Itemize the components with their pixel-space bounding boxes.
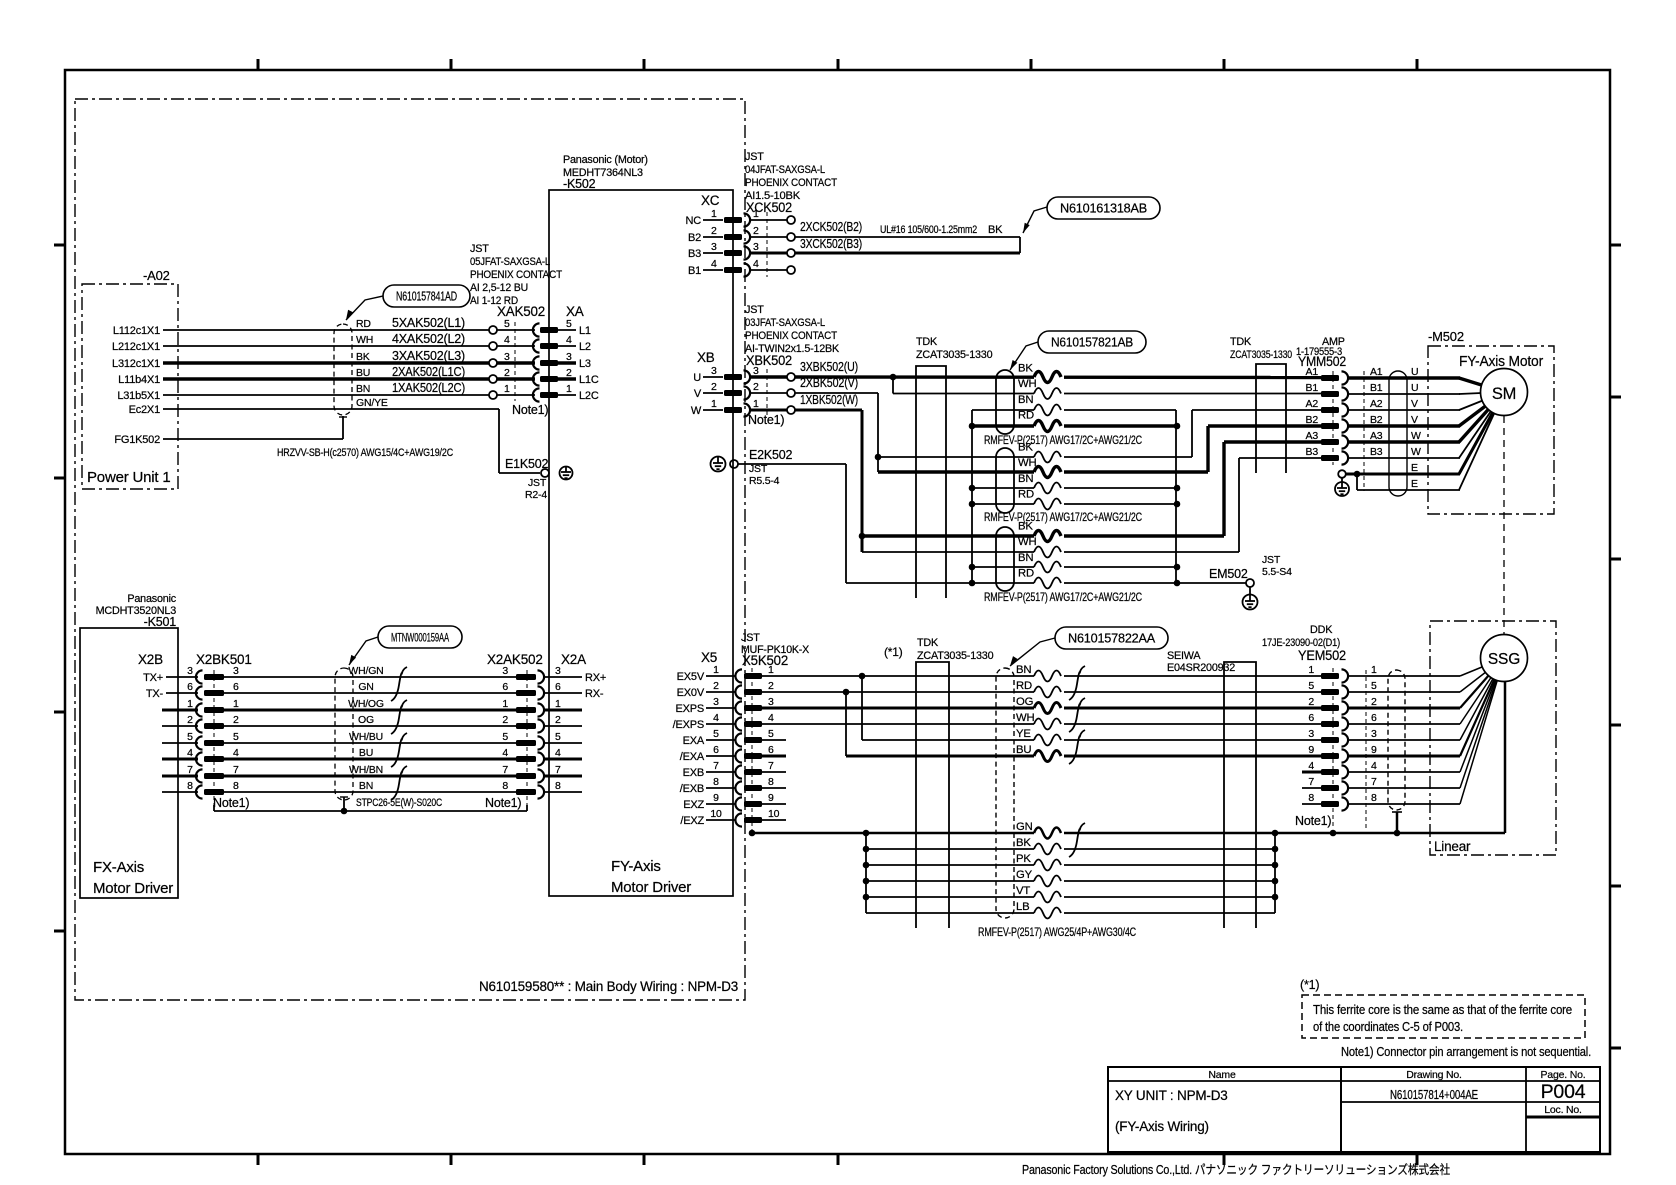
svg-text:PHOENIX CONTACT: PHOENIX CONTACT (745, 330, 838, 342)
svg-text:OG: OG (1016, 696, 1033, 708)
svg-text:3: 3 (711, 241, 717, 253)
svg-text:N610161318AB: N610161318AB (1060, 201, 1147, 215)
svg-text:DDK: DDK (1310, 624, 1333, 636)
svg-text:5: 5 (1308, 680, 1314, 692)
svg-text:EXPS: EXPS (675, 703, 704, 715)
svg-text:04JFAT-SAXGSA-L: 04JFAT-SAXGSA-L (745, 164, 825, 176)
svg-text:EXA: EXA (683, 735, 705, 747)
svg-text:EXZ: EXZ (683, 799, 704, 811)
svg-text:BN: BN (356, 383, 370, 395)
svg-text:JST: JST (745, 304, 764, 316)
svg-text:U: U (1411, 382, 1418, 394)
svg-text:XB: XB (697, 350, 715, 365)
svg-text:FY-Axis: FY-Axis (611, 858, 661, 875)
svg-text:2: 2 (504, 367, 510, 379)
svg-text:1: 1 (504, 383, 510, 395)
svg-text:MTNW000159AA: MTNW000159AA (391, 630, 449, 644)
svg-text:1XBK502(W): 1XBK502(W) (800, 392, 858, 407)
svg-text:8: 8 (1371, 792, 1377, 804)
svg-text:-M502: -M502 (1428, 329, 1464, 344)
svg-text:V: V (1411, 398, 1418, 410)
svg-text:6: 6 (1308, 712, 1314, 724)
svg-text:STPC26-5E(W)-S020C: STPC26-5E(W)-S020C (356, 797, 442, 809)
svg-text:(FY-Axis Wiring): (FY-Axis Wiring) (1115, 1119, 1209, 1134)
svg-text:AI 2,5-12 BU: AI 2,5-12 BU (470, 282, 528, 294)
svg-text:TDK: TDK (1230, 336, 1252, 348)
svg-text:1: 1 (711, 398, 717, 410)
svg-text:B1: B1 (688, 265, 701, 277)
svg-text:3XAK502(L3): 3XAK502(L3) (392, 348, 465, 363)
svg-text:Note1): Note1) (213, 796, 249, 810)
svg-text:1: 1 (1308, 664, 1314, 676)
svg-text:B2: B2 (688, 232, 701, 244)
svg-text:ZCAT3035-1330: ZCAT3035-1330 (1230, 349, 1292, 361)
svg-text:W: W (1411, 430, 1421, 442)
svg-text:L1C: L1C (579, 374, 599, 386)
svg-text:5: 5 (502, 731, 508, 743)
svg-text:4: 4 (504, 334, 510, 346)
svg-text:L112c1X1: L112c1X1 (113, 325, 160, 337)
svg-text:3XBK502(U): 3XBK502(U) (800, 359, 858, 374)
svg-text:X2B: X2B (138, 652, 163, 667)
svg-text:W: W (1411, 446, 1421, 458)
svg-text:A2: A2 (1370, 398, 1383, 410)
svg-text:BK: BK (988, 224, 1003, 236)
svg-text:B1: B1 (1306, 382, 1319, 394)
svg-text:8: 8 (233, 780, 239, 792)
svg-text:JST: JST (1262, 554, 1281, 566)
svg-text:/EXA: /EXA (680, 751, 705, 763)
svg-text:4: 4 (1371, 760, 1377, 772)
svg-text:7: 7 (233, 764, 239, 776)
svg-text:BN: BN (1018, 394, 1033, 406)
svg-text:1: 1 (711, 208, 717, 220)
svg-text:TDK: TDK (916, 336, 938, 348)
svg-text:RMFEV-P(2517) AWG25/4P+AWG30/4: RMFEV-P(2517) AWG25/4P+AWG30/4C (978, 925, 1137, 939)
svg-text:1: 1 (555, 698, 561, 710)
svg-text:XA: XA (566, 304, 584, 319)
svg-text:3XCK502(B3): 3XCK502(B3) (800, 236, 862, 251)
svg-text:L3: L3 (579, 358, 591, 370)
svg-text:(*1): (*1) (884, 645, 903, 659)
svg-text:2: 2 (187, 714, 193, 726)
svg-text:2: 2 (566, 367, 572, 379)
svg-text:of the coordinates C-5 of P003: of the coordinates C-5 of P003. (1313, 1019, 1463, 1034)
svg-text:3: 3 (753, 241, 759, 253)
svg-text:RX-: RX- (585, 688, 604, 700)
svg-text:WH: WH (1016, 712, 1034, 724)
svg-text:Note1): Note1) (748, 413, 784, 427)
svg-text:Note1) Connector pin arrangeme: Note1) Connector pin arrangement is not … (1341, 1044, 1591, 1059)
svg-text:1: 1 (1371, 664, 1377, 676)
svg-text:1XAK502(L2C): 1XAK502(L2C) (392, 380, 465, 395)
svg-text:/EXB: /EXB (680, 783, 704, 795)
svg-text:2: 2 (502, 714, 508, 726)
svg-text:3: 3 (1371, 728, 1377, 740)
svg-text:W: W (691, 405, 702, 417)
svg-text:9: 9 (768, 792, 774, 804)
svg-text:3: 3 (753, 365, 759, 377)
svg-text:P004: P004 (1541, 1081, 1586, 1103)
svg-text:-A02: -A02 (143, 268, 170, 283)
svg-text:8: 8 (187, 780, 193, 792)
svg-text:R5.5-4: R5.5-4 (749, 475, 780, 487)
svg-text:1: 1 (502, 698, 508, 710)
svg-text:E2K502: E2K502 (749, 448, 793, 462)
svg-text:WH/GN: WH/GN (348, 665, 383, 677)
svg-text:9: 9 (1308, 744, 1314, 756)
svg-text:RMFEV-P(2517) AWG17/2C+AWG21/2: RMFEV-P(2517) AWG17/2C+AWG21/2C (984, 590, 1143, 604)
svg-text:ZCAT3035-1330: ZCAT3035-1330 (916, 349, 993, 361)
svg-text:EM502: EM502 (1209, 567, 1248, 581)
svg-text:4: 4 (768, 712, 774, 724)
svg-text:B3: B3 (688, 248, 701, 260)
svg-text:7: 7 (1371, 776, 1377, 788)
svg-text:X5: X5 (701, 650, 717, 665)
svg-text:2XCK502(B2): 2XCK502(B2) (800, 219, 862, 234)
svg-text:6: 6 (233, 681, 239, 693)
svg-text:Linear: Linear (1434, 839, 1471, 854)
svg-text:TX+: TX+ (143, 672, 163, 684)
svg-text:Drawing No.: Drawing No. (1406, 1069, 1462, 1081)
svg-text:4: 4 (566, 334, 572, 346)
svg-text:A1: A1 (1370, 366, 1383, 378)
svg-text:9: 9 (1371, 744, 1377, 756)
svg-text:4: 4 (753, 258, 759, 270)
svg-text:PHOENIX CONTACT: PHOENIX CONTACT (745, 177, 838, 189)
svg-text:5: 5 (713, 728, 719, 740)
svg-text:XC: XC (701, 193, 720, 208)
svg-text:PK: PK (1016, 853, 1031, 865)
svg-text:N610159580** : Main Body Wirin: N610159580** : Main Body Wiring : NPM-D3 (479, 978, 738, 994)
svg-text:5: 5 (566, 318, 572, 330)
svg-text:2: 2 (768, 680, 774, 692)
svg-text:BU: BU (1016, 744, 1031, 756)
svg-text:7: 7 (502, 764, 508, 776)
svg-text:2: 2 (1308, 696, 1314, 708)
svg-text:BN: BN (1016, 664, 1031, 676)
svg-text:YEM502: YEM502 (1298, 648, 1346, 663)
svg-text:B1: B1 (1370, 382, 1383, 394)
svg-text:BK: BK (1018, 363, 1033, 375)
svg-text:6: 6 (1371, 712, 1377, 724)
svg-text:N610157822AA: N610157822AA (1068, 631, 1156, 645)
svg-text:NC: NC (686, 215, 702, 227)
svg-text:6: 6 (187, 681, 193, 693)
svg-text:6: 6 (713, 744, 719, 756)
svg-text:2XAK502(L1C): 2XAK502(L1C) (392, 364, 465, 379)
svg-text:SSG: SSG (1488, 651, 1520, 668)
svg-text:3: 3 (504, 351, 510, 363)
svg-text:5.5-S4: 5.5-S4 (1262, 566, 1292, 578)
svg-text:B2: B2 (1370, 414, 1383, 426)
svg-text:8: 8 (555, 780, 561, 792)
svg-text:03JFAT-SAXGSA-L: 03JFAT-SAXGSA-L (745, 317, 825, 329)
svg-text:5: 5 (504, 318, 510, 330)
svg-text:LB: LB (1016, 901, 1029, 913)
svg-text:X2BK501: X2BK501 (196, 652, 252, 667)
svg-text:N610157841AD: N610157841AD (396, 289, 457, 303)
svg-text:7: 7 (555, 764, 561, 776)
svg-text:A3: A3 (1370, 430, 1383, 442)
svg-text:2: 2 (555, 714, 561, 726)
svg-text:4: 4 (502, 747, 508, 759)
svg-text:JST: JST (528, 477, 547, 489)
svg-text:Note1): Note1) (512, 403, 548, 417)
svg-text:X5K502: X5K502 (742, 653, 788, 668)
svg-text:ZCAT3035-1330: ZCAT3035-1330 (917, 650, 994, 662)
svg-text:RMFEV-P(2517) AWG17/2C+AWG21/2: RMFEV-P(2517) AWG17/2C+AWG21/2C (984, 433, 1143, 447)
svg-text:-K501: -K501 (144, 615, 177, 629)
svg-text:This ferrite core is the same: This ferrite core is the same as that of… (1313, 1002, 1572, 1017)
svg-text:3: 3 (1308, 728, 1314, 740)
svg-text:EXB: EXB (683, 767, 704, 779)
svg-text:Note1): Note1) (485, 796, 521, 810)
svg-text:RD: RD (1018, 568, 1034, 580)
svg-text:3: 3 (233, 665, 239, 677)
svg-text:JST: JST (470, 243, 489, 255)
svg-text:5XAK502(L1): 5XAK502(L1) (392, 315, 465, 330)
svg-text:B3: B3 (1306, 446, 1319, 458)
svg-text:4: 4 (1308, 760, 1314, 772)
svg-text:-K502: -K502 (563, 177, 596, 191)
svg-text:8: 8 (1308, 792, 1314, 804)
svg-text:4: 4 (711, 258, 717, 270)
svg-text:X2A: X2A (561, 652, 586, 667)
svg-text:EX5V: EX5V (677, 671, 705, 683)
svg-text:7: 7 (713, 760, 719, 772)
svg-text:10: 10 (710, 808, 722, 820)
svg-text:E: E (1411, 462, 1418, 474)
svg-text:BU: BU (359, 747, 373, 759)
svg-text:L31b5X1: L31b5X1 (117, 390, 160, 402)
svg-text:TDK: TDK (917, 637, 939, 649)
svg-text:L11b4X1: L11b4X1 (118, 374, 160, 386)
svg-text:6: 6 (555, 681, 561, 693)
svg-text:2: 2 (753, 225, 759, 237)
svg-text:3: 3 (713, 696, 719, 708)
svg-text:RMFEV-P(2517) AWG17/2C+AWG21/2: RMFEV-P(2517) AWG17/2C+AWG21/2C (984, 510, 1143, 524)
svg-text:UL#16 105/600-1.25mm2: UL#16 105/600-1.25mm2 (880, 224, 977, 236)
svg-text:VT: VT (1016, 885, 1030, 897)
svg-text:EX0V: EX0V (677, 687, 705, 699)
svg-text:5: 5 (187, 731, 193, 743)
svg-text:FX-Axis: FX-Axis (93, 859, 144, 876)
svg-text:2: 2 (711, 225, 717, 237)
svg-text:4: 4 (713, 712, 719, 724)
svg-text:L312c1X1: L312c1X1 (112, 358, 160, 370)
svg-text:3: 3 (566, 351, 572, 363)
svg-text:Name: Name (1208, 1069, 1236, 1081)
svg-text:Panasonic Factory Solutions Co: Panasonic Factory Solutions Co.,Ltd. パナソ… (1022, 1162, 1450, 1177)
svg-text:RX+: RX+ (585, 672, 606, 684)
svg-text:BK: BK (356, 351, 370, 363)
svg-text:Note1): Note1) (1295, 814, 1331, 828)
svg-text:1: 1 (768, 664, 774, 676)
svg-text:Motor Driver: Motor Driver (611, 879, 691, 896)
svg-text:9: 9 (713, 792, 719, 804)
svg-text:3: 3 (502, 665, 508, 677)
svg-text:XY UNIT : NPM-D3: XY UNIT : NPM-D3 (1115, 1088, 1228, 1103)
svg-text:A3: A3 (1306, 430, 1319, 442)
svg-text:N610157821AB: N610157821AB (1051, 335, 1133, 349)
svg-text:BN: BN (1018, 552, 1033, 564)
svg-text:2: 2 (233, 714, 239, 726)
svg-text:YE: YE (1016, 728, 1031, 740)
svg-text:XAK502: XAK502 (497, 304, 545, 319)
svg-text:GN: GN (358, 681, 373, 693)
svg-text:A2: A2 (1306, 398, 1319, 410)
svg-text:8: 8 (502, 780, 508, 792)
svg-text:1: 1 (753, 398, 759, 410)
svg-text:U: U (1411, 366, 1418, 378)
svg-text:4: 4 (187, 747, 193, 759)
svg-text:WH: WH (1018, 536, 1036, 548)
svg-text:L212c1X1: L212c1X1 (112, 341, 160, 353)
svg-text:3: 3 (187, 665, 193, 677)
svg-text:Motor Driver: Motor Driver (93, 880, 173, 897)
svg-text:WH: WH (1018, 378, 1036, 390)
svg-text:RD: RD (1018, 410, 1034, 422)
svg-text:RD: RD (1016, 680, 1032, 692)
svg-text:A1: A1 (1306, 366, 1319, 378)
svg-text:3: 3 (768, 696, 774, 708)
svg-text:7: 7 (1308, 776, 1314, 788)
svg-text:Power Unit 1: Power Unit 1 (87, 469, 170, 486)
svg-text:E04SR200932: E04SR200932 (1167, 662, 1235, 674)
svg-text:/EXPS: /EXPS (673, 719, 704, 731)
svg-text:5: 5 (233, 731, 239, 743)
svg-text:WH: WH (1018, 457, 1036, 469)
svg-text:1: 1 (566, 383, 572, 395)
svg-text:4: 4 (555, 747, 561, 759)
svg-text:WH/BN: WH/BN (349, 764, 383, 776)
svg-text:BK: BK (1016, 837, 1031, 849)
svg-text:4XAK502(L2): 4XAK502(L2) (392, 331, 465, 346)
svg-text:TX-: TX- (146, 688, 164, 700)
svg-text:X2AK502: X2AK502 (487, 652, 543, 667)
svg-text:2: 2 (753, 381, 759, 393)
svg-text:JST: JST (749, 463, 768, 475)
svg-text:Loc. No.: Loc. No. (1544, 1104, 1582, 1116)
svg-text:2: 2 (1371, 696, 1377, 708)
svg-text:2: 2 (713, 680, 719, 692)
svg-text:Page. No.: Page. No. (1541, 1069, 1586, 1081)
svg-text:RD: RD (356, 318, 371, 330)
svg-text:1: 1 (753, 208, 759, 220)
svg-text:BU: BU (356, 367, 370, 379)
svg-text:/EXZ: /EXZ (680, 815, 704, 827)
svg-text:R2-4: R2-4 (525, 489, 547, 501)
svg-text:E: E (1411, 478, 1418, 490)
svg-text:WH/BU: WH/BU (349, 731, 383, 743)
svg-text:6: 6 (768, 744, 774, 756)
svg-text:B3: B3 (1370, 446, 1383, 458)
svg-text:4: 4 (233, 747, 239, 759)
svg-text:5: 5 (1371, 680, 1377, 692)
svg-text:GN/YE: GN/YE (356, 397, 388, 409)
svg-text:U: U (693, 372, 701, 384)
svg-text:1: 1 (233, 698, 239, 710)
svg-text:RD: RD (1018, 489, 1034, 501)
svg-text:1: 1 (713, 664, 719, 676)
svg-text:OG: OG (358, 714, 374, 726)
svg-text:FG1K502: FG1K502 (114, 434, 160, 446)
svg-text:5: 5 (768, 728, 774, 740)
svg-text:6: 6 (502, 681, 508, 693)
svg-text:3: 3 (711, 365, 717, 377)
svg-text:E1K502: E1K502 (505, 457, 549, 471)
svg-text:L2: L2 (579, 341, 591, 353)
svg-text:FY-Axis Motor: FY-Axis Motor (1459, 354, 1543, 370)
svg-text:7: 7 (768, 760, 774, 772)
svg-text:B2: B2 (1306, 414, 1319, 426)
svg-text:2: 2 (711, 381, 717, 393)
svg-text:JST: JST (745, 151, 764, 163)
svg-text:1: 1 (187, 698, 193, 710)
svg-text:V: V (1411, 414, 1418, 426)
svg-text:Panasonic (Motor): Panasonic (Motor) (563, 154, 648, 166)
svg-text:05JFAT-SAXGSA-L: 05JFAT-SAXGSA-L (470, 256, 550, 268)
svg-text:V: V (694, 388, 702, 400)
svg-text:L2C: L2C (579, 390, 599, 402)
svg-text:GN: GN (1016, 821, 1033, 833)
svg-text:10: 10 (768, 808, 780, 820)
svg-text:SEIWA: SEIWA (1167, 650, 1201, 662)
svg-text:L1: L1 (579, 325, 591, 337)
svg-text:BN: BN (359, 780, 373, 792)
svg-text:N610157814+004AE: N610157814+004AE (1390, 1088, 1478, 1102)
svg-text:7: 7 (187, 764, 193, 776)
svg-text:BN: BN (1018, 473, 1033, 485)
svg-text:Panasonic: Panasonic (127, 593, 176, 605)
svg-text:HRZVV-SB-H(c2570) AWG15/4C+AWG: HRZVV-SB-H(c2570) AWG15/4C+AWG19/2C (277, 447, 453, 459)
svg-text:WH: WH (356, 334, 373, 346)
svg-text:3: 3 (555, 665, 561, 677)
svg-text:8: 8 (768, 776, 774, 788)
svg-text:8: 8 (713, 776, 719, 788)
svg-text:JST: JST (741, 632, 760, 644)
svg-text:SM: SM (1492, 385, 1516, 403)
svg-text:Ec2X1: Ec2X1 (129, 404, 160, 416)
svg-text:GY: GY (1016, 869, 1033, 881)
svg-text:5: 5 (555, 731, 561, 743)
svg-text:(*1): (*1) (1300, 978, 1319, 992)
